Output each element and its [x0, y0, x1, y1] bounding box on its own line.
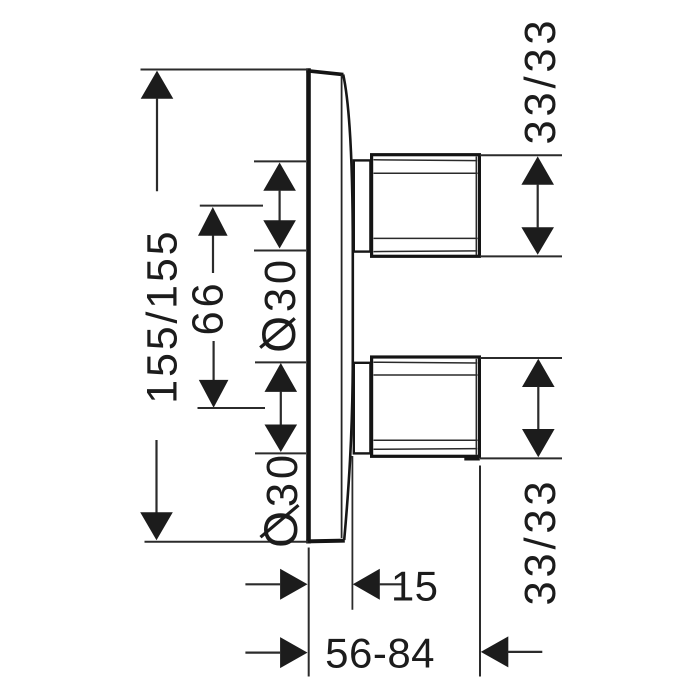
- dimension diameter 30 upper: bottom extension line: [254, 250, 306, 252]
- upper stem sleeve: [354, 160, 371, 251]
- dimension diameter 30 lower: shaft: [280, 391, 282, 425]
- handle face extension line: [479, 466, 481, 677]
- dimension 15: right tail: [379, 583, 402, 585]
- dimension 66 bottom extension line: [198, 407, 266, 409]
- dimension 155/155 down arrow: [140, 512, 173, 540]
- lower handle mounting tab edge: [464, 457, 480, 460]
- dimension diameter 30 upper: top extension line: [254, 160, 306, 162]
- dimension 15: left tail: [245, 583, 281, 585]
- lower stem sleeve: [354, 363, 371, 454]
- dimension 66 upper shaft: [212, 236, 214, 274]
- dimension 155/155 upper shaft: [156, 98, 158, 191]
- dimension 33/33 lower: down arrow: [522, 429, 555, 457]
- dimension diameter 30 lower: up arrow: [265, 363, 298, 392]
- svg-text:56-84: 56-84: [325, 629, 435, 676]
- wall plane extension line: [308, 548, 310, 677]
- dimension 56-84: arrow pointing right: [280, 637, 307, 668]
- svg-text:66: 66: [185, 280, 233, 336]
- svg-text:33/33: 33/33: [517, 478, 565, 606]
- escutcheon plate front curve: [343, 75, 353, 541]
- dimension 33/33 upper: top extension line: [480, 154, 562, 156]
- dimension 33/33 upper: bottom extension line: [480, 255, 562, 257]
- lower handle bevel lines: [374, 359, 478, 455]
- svg-text:155/155: 155/155: [139, 229, 187, 404]
- dimension 15: arrow pointing left: [353, 569, 380, 600]
- svg-text:33/33: 33/33: [517, 17, 565, 145]
- lower handle body: [372, 357, 480, 456]
- dimension 33/33 lower: top extension line: [480, 357, 562, 359]
- dimension 33/33 lower: up arrow: [522, 359, 555, 387]
- dimension 66 down arrow: [199, 380, 229, 408]
- dimension 56-84: arrow pointing left: [481, 636, 509, 667]
- escutcheon plate back edge: [306, 68, 311, 543]
- dimension 33/33 upper: down arrow: [521, 227, 554, 255]
- dimension diameter 30 lower: bottom extension line: [255, 452, 306, 454]
- escutcheon plate top edge: [306, 71, 343, 75]
- escutcheon plate bottom edge: [306, 539, 344, 544]
- upper handle bevel lines: [374, 157, 478, 256]
- dimension 66 up arrow: [198, 207, 228, 236]
- dimension 155/155 bottom extension line: [145, 541, 309, 543]
- dimension 33/33 upper: shaft: [537, 184, 539, 227]
- dimension diameter 30 upper: diameter slash stroke: [260, 318, 295, 347]
- dimension 155/155 lower shaft: [155, 440, 157, 513]
- dimension 33/33 lower: shaft: [537, 387, 539, 430]
- dimension 155/155 up arrow: [141, 71, 174, 99]
- escutcheon plate inner rim line: [341, 75, 343, 538]
- dimension 66 top extension line: [200, 205, 263, 207]
- dimension 15: left side arrow pointing right: [280, 569, 307, 600]
- dimension diameter 30 upper: up arrow: [263, 163, 296, 191]
- dimension 33/33 lower: bottom extension line: [480, 457, 562, 459]
- dimension 66 lower shaft: [213, 341, 215, 381]
- dimension diameter 30 lower: diameter slash stroke: [261, 505, 299, 537]
- svg-text:15: 15: [391, 562, 439, 609]
- dimension diameter 30 upper: shaft: [279, 190, 281, 221]
- dimension diameter 30 lower: top extension line: [255, 361, 306, 363]
- dimension 56-84: left tail: [245, 651, 281, 653]
- plate front extension line: [351, 456, 353, 610]
- upper handle body: [372, 155, 480, 257]
- svg-text:O30: O30: [253, 256, 306, 353]
- dimension diameter 30 upper: down arrow: [263, 220, 296, 248]
- dimension 155/155 top extension line: [141, 69, 309, 71]
- dimension 56-84: right tail: [508, 651, 543, 653]
- dimension diameter 30 lower: down arrow: [265, 425, 298, 453]
- dimension 33/33 upper: up arrow: [521, 156, 554, 184]
